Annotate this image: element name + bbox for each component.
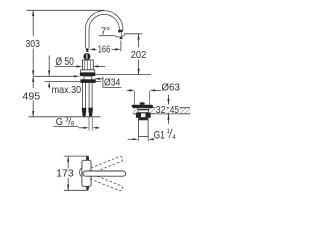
handle knob <box>83 53 90 60</box>
dimension max.30 <box>48 56 81 96</box>
7 degree swing arc with arrowhead <box>115 35 125 40</box>
top view body <box>82 160 91 186</box>
drain locking nut <box>136 113 151 120</box>
swivel range dashed tube upper <box>89 156 124 174</box>
svg-text:32: 32 <box>156 105 166 116</box>
top view left bump <box>80 168 85 176</box>
drain tailpipe <box>139 120 149 137</box>
counter top line right segment / 202 reference <box>95 74 150 76</box>
svg-text:max.30: max.30 <box>52 85 82 96</box>
mounting nut <box>80 79 95 83</box>
svg-text:166: 166 <box>98 45 111 56</box>
svg-text:303: 303 <box>26 39 40 50</box>
supply pipe ends extension line <box>29 116 101 118</box>
label 7 degrees <box>99 26 115 37</box>
counter top line left <box>34 75 80 77</box>
dimension G 3/8 arrows <box>78 117 99 130</box>
dimension Ø50 <box>55 56 105 68</box>
svg-text:45: 45 <box>170 105 180 116</box>
top view top nub <box>86 156 89 160</box>
top view bottom nub <box>86 186 89 190</box>
handle knob stem <box>86 48 88 52</box>
supply pipe left <box>82 83 86 117</box>
label Ø34 with leader <box>94 77 121 89</box>
label G 3/8 <box>53 116 78 128</box>
drain body through deck <box>138 108 148 113</box>
dimension 202 <box>124 34 146 75</box>
spout outlet aerator <box>118 30 123 33</box>
dimension Ø63 <box>127 83 180 105</box>
top reference line <box>27 9 105 11</box>
drain plug cap <box>140 102 145 104</box>
svg-text:202: 202 <box>131 50 147 61</box>
spout arc tube <box>87 13 121 49</box>
base dark band <box>80 73 96 76</box>
dimension G1 1/4 <box>128 128 177 142</box>
supply pipe right <box>88 83 92 117</box>
dimension 166 <box>89 41 121 56</box>
dimension 495 <box>22 76 40 117</box>
dimension 173 <box>56 156 88 190</box>
deck bottom line <box>45 80 101 82</box>
base upper flange <box>81 70 95 73</box>
svg-text:495: 495 <box>22 91 40 102</box>
swivel range dashed tube lower <box>89 173 124 191</box>
dimension 32-45 <box>155 95 179 124</box>
faucet body column <box>83 60 94 70</box>
shank through deck <box>84 76 92 80</box>
svg-text:Ø63: Ø63 <box>161 83 180 94</box>
svg-text:Ø34: Ø34 <box>104 78 120 89</box>
top view spout tube <box>83 171 126 176</box>
dimension 303 <box>26 10 40 76</box>
drain flange <box>132 105 153 108</box>
svg-text:173: 173 <box>56 169 74 180</box>
deck hatch band at drain <box>133 108 190 114</box>
svg-text:3: 3 <box>65 116 69 123</box>
svg-text:G1: G1 <box>154 129 165 141</box>
